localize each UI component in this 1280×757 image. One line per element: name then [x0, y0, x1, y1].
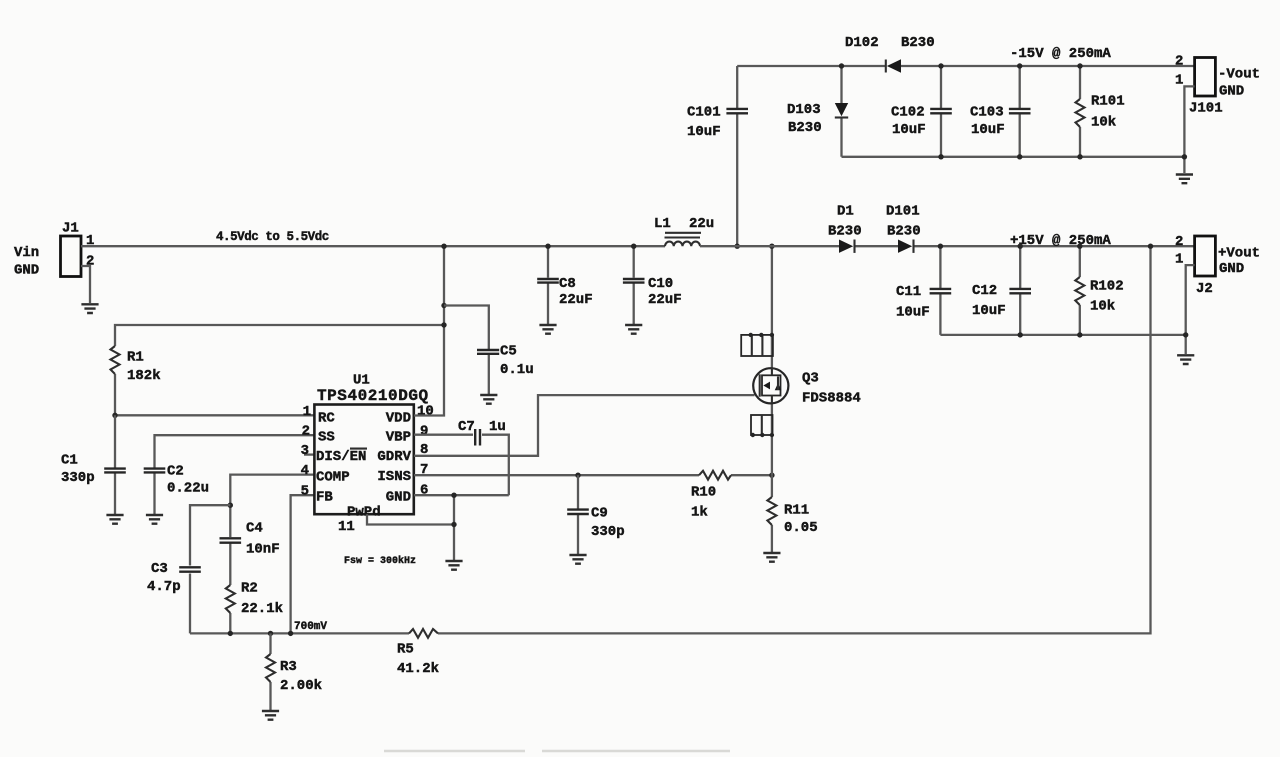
wire C102: [940, 66, 942, 157]
svg-text:1k: 1k: [691, 505, 708, 521]
capacitor C12: [972, 283, 1031, 319]
svg-text:10uF: 10uF: [896, 305, 930, 321]
svg-text:C5: C5: [500, 344, 517, 360]
svg-text:FDS8884: FDS8884: [802, 391, 861, 407]
svg-text:330p: 330p: [591, 524, 625, 540]
transistor Q3 FDS8884: [753, 368, 861, 406]
wire pin3 stub: [304, 453, 314, 455]
svg-text:C9: C9: [591, 506, 608, 522]
svg-text:R3: R3: [280, 659, 297, 675]
wire VDD pin10 riser: [414, 246, 444, 415]
svg-text:1: 1: [1175, 252, 1183, 268]
svg-text:D1: D1: [837, 204, 854, 220]
wire GND pin6: [414, 495, 509, 560]
resistor R102: [1075, 246, 1123, 335]
ground (R3): [262, 711, 279, 720]
svg-text:J101: J101: [1189, 101, 1223, 117]
connector J101: [1175, 54, 1260, 117]
svg-text:C103: C103: [970, 105, 1004, 121]
node J101 gnd junction: [1182, 154, 1187, 159]
svg-text:R11: R11: [784, 503, 809, 519]
node RC junction: [112, 413, 117, 418]
svg-text:Q3: Q3: [802, 371, 819, 387]
node C101 rail junction: [735, 244, 740, 249]
capacitor C11: [896, 284, 951, 321]
svg-text:2.00k: 2.00k: [280, 678, 322, 694]
svg-text:VDD: VDD: [386, 411, 411, 427]
wire C11: [939, 246, 941, 335]
node C12 top: [1018, 244, 1023, 249]
ground (C9): [569, 555, 586, 564]
svg-text:700mV: 700mV: [294, 621, 327, 633]
svg-text:4.5Vdc to 5.5Vdc: 4.5Vdc to 5.5Vdc: [216, 230, 329, 244]
wire C9 branch: [577, 475, 579, 554]
svg-text:10nF: 10nF: [246, 542, 280, 558]
node pin11 junction: [451, 522, 456, 527]
svg-text:B230: B230: [887, 224, 921, 240]
svg-text:2: 2: [302, 424, 310, 440]
wire R1 top branch: [115, 325, 444, 415]
svg-text:C3: C3: [151, 561, 168, 577]
svg-text:C8: C8: [559, 276, 576, 292]
svg-text:R10: R10: [691, 485, 716, 501]
svg-text:C101: C101: [687, 105, 721, 121]
resistor R101: [1076, 66, 1125, 157]
ground (J101): [1176, 175, 1193, 184]
svg-text:FB: FB: [316, 490, 333, 506]
ground (C1): [106, 515, 123, 524]
svg-text:22.1k: 22.1k: [241, 601, 283, 617]
capacitor C10: [623, 276, 682, 308]
node R101 top: [1077, 63, 1082, 68]
svg-text:10uF: 10uF: [971, 122, 1005, 138]
svg-text:5: 5: [301, 484, 309, 500]
connector J2: [1175, 234, 1260, 297]
svg-text:ISNS: ISNS: [377, 469, 411, 485]
node C10 junction: [631, 244, 636, 249]
svg-text:3: 3: [301, 443, 309, 459]
diode D101: [886, 204, 921, 253]
svg-text:GND: GND: [386, 490, 411, 506]
node C102 bottom: [938, 154, 943, 159]
node C8 junction: [545, 244, 550, 249]
svg-text:DIS/EN: DIS/EN: [316, 449, 366, 465]
svg-text:GND: GND: [14, 263, 39, 279]
wire +15V block bottom rail: [940, 334, 1185, 336]
node C103 bottom: [1017, 154, 1022, 159]
node R101 bottom: [1077, 154, 1082, 159]
capacitor C3: [147, 561, 201, 595]
svg-text:0.1u: 0.1u: [500, 362, 534, 378]
node R3 junction: [268, 631, 273, 636]
svg-text:VBP: VBP: [386, 430, 411, 446]
pin 3 label DIS/EN: [316, 449, 367, 465]
svg-text:9: 9: [420, 423, 428, 439]
wire pin11 PwPd: [367, 514, 454, 524]
capacitor C103: [970, 105, 1031, 139]
resistor R2: [226, 581, 283, 618]
svg-text:2: 2: [1175, 54, 1183, 70]
wire J101 pin1 to ground: [1184, 86, 1194, 173]
wire GDRV pin8 to gate: [414, 395, 755, 456]
node GND junction: [451, 493, 456, 498]
svg-text:11: 11: [338, 519, 355, 535]
wire bottom feedback rail: [190, 246, 1151, 633]
wire C3 branch: [190, 505, 230, 633]
resistor R10: [691, 471, 731, 521]
node C4/R2 bottom junction: [228, 631, 233, 636]
svg-text:Fsw = 300kHz: Fsw = 300kHz: [344, 555, 416, 567]
resistor R5: [397, 629, 439, 677]
svg-text:10uF: 10uF: [687, 124, 721, 140]
node C12 bottom: [1018, 332, 1023, 337]
svg-text:4.7p: 4.7p: [147, 579, 181, 595]
svg-text:R102: R102: [1090, 279, 1124, 295]
jumper block above Q3: [741, 333, 774, 356]
svg-text:C102: C102: [891, 105, 925, 121]
wire C10 branch: [633, 246, 635, 324]
svg-text:C10: C10: [648, 276, 673, 292]
resistor R3: [266, 633, 322, 710]
svg-text:R101: R101: [1091, 94, 1125, 110]
capacitor C7: [458, 419, 506, 446]
node Q3 drain rail junction: [769, 244, 774, 249]
svg-text:10uF: 10uF: [892, 122, 926, 138]
wire J2 pin1 to ground: [1186, 265, 1195, 354]
svg-text:0.22u: 0.22u: [167, 481, 209, 497]
svg-text:GND: GND: [1219, 261, 1244, 277]
capacitor C1: [61, 453, 126, 487]
ground (J1 pin2): [81, 304, 98, 313]
svg-text:2: 2: [1175, 234, 1183, 250]
svg-text:L1: L1: [654, 216, 671, 232]
wire SS pin2: [155, 435, 315, 514]
node C102 top: [938, 63, 943, 68]
wire FB pin5: [291, 495, 314, 633]
svg-text:R1: R1: [127, 350, 144, 366]
svg-text:C11: C11: [896, 284, 921, 300]
svg-text:182k: 182k: [127, 368, 161, 384]
svg-text:C12: C12: [972, 283, 997, 299]
wire Q3 drain branch: [771, 246, 773, 475]
connector J1: [61, 221, 95, 277]
capacitor C5: [477, 344, 534, 379]
wire C1 vertical: [114, 415, 116, 514]
ground (C10): [625, 325, 642, 334]
resistor R11: [767, 475, 817, 552]
wire C101 riser: [736, 66, 738, 246]
diode D102: [845, 35, 935, 73]
svg-text:C4: C4: [246, 521, 263, 537]
node C103 top: [1017, 63, 1022, 68]
capacitor C9: [567, 506, 624, 541]
op-amp U1 TPS40210DGQ body: [314, 373, 428, 515]
svg-text:TPS40210DGQ: TPS40210DGQ: [317, 387, 429, 405]
svg-text:D102: D102: [845, 35, 879, 51]
wire J1 pin2 to ground: [81, 266, 90, 303]
ground (C5): [480, 395, 497, 404]
svg-text:C2: C2: [167, 464, 184, 480]
svg-text:GND: GND: [1219, 84, 1244, 100]
svg-text:22u: 22u: [689, 216, 714, 232]
svg-text:R5: R5: [397, 642, 414, 658]
wire C12: [1019, 246, 1021, 335]
svg-text:GDRV: GDRV: [377, 449, 411, 465]
svg-text:C1: C1: [61, 453, 78, 469]
wire +15V rail right of L1: [700, 245, 1195, 247]
svg-text:4: 4: [301, 463, 309, 479]
node COMP junction: [228, 503, 233, 508]
svg-text:B230: B230: [828, 224, 862, 240]
ground (U1 GND): [445, 561, 462, 570]
svg-text:10k: 10k: [1090, 299, 1115, 315]
svg-text:SS: SS: [318, 430, 335, 446]
svg-text:RC: RC: [318, 411, 335, 427]
svg-text:R2: R2: [241, 581, 258, 597]
svg-text:-Vout: -Vout: [1218, 67, 1260, 83]
svg-text:J2: J2: [1196, 281, 1213, 297]
svg-text:1: 1: [1175, 73, 1183, 89]
svg-text:1: 1: [303, 404, 311, 420]
node R102 bottom: [1077, 332, 1082, 337]
ground (J2): [1177, 355, 1194, 364]
svg-text:22uF: 22uF: [648, 292, 682, 308]
node R1 branch junction: [441, 322, 446, 327]
svg-text:+Vout: +Vout: [1218, 246, 1260, 262]
svg-text:330p: 330p: [61, 470, 95, 486]
ground (C2): [146, 515, 163, 524]
svg-text:Vin: Vin: [14, 245, 39, 261]
svg-text:B230: B230: [901, 35, 935, 51]
wire C8 branch: [547, 246, 549, 324]
resistor R1: [111, 346, 161, 384]
jumper block below Q3: [751, 415, 775, 437]
capacitor C4: [220, 521, 280, 558]
node C11 top: [938, 244, 943, 249]
node feedback riser junction: [1148, 244, 1153, 249]
svg-text:1u: 1u: [489, 419, 506, 435]
capacitor C101: [687, 105, 748, 141]
svg-text:J1: J1: [62, 221, 79, 237]
svg-text:D101: D101: [886, 204, 920, 220]
faint page artifact lines: [384, 750, 730, 753]
svg-text:41.2k: 41.2k: [397, 661, 439, 677]
svg-text:10uF: 10uF: [972, 303, 1006, 319]
ground (C8): [539, 325, 556, 334]
pin 11 label PwPd: [338, 505, 381, 536]
node D103 top junction: [839, 63, 844, 68]
node C9 junction: [575, 473, 580, 478]
svg-text:0.05: 0.05: [784, 520, 818, 536]
capacitor C102: [891, 105, 952, 139]
svg-text:10: 10: [417, 403, 434, 419]
svg-text:COMP: COMP: [316, 470, 350, 486]
svg-text:C7: C7: [458, 419, 475, 435]
wire COMP pin4: [230, 475, 314, 634]
node R10/R11/Q3 junction: [769, 473, 774, 478]
wire -15V bottom rail: [842, 156, 1185, 158]
svg-text:-15V @ 250mA: -15V @ 250mA: [1010, 46, 1111, 62]
node FB junction: [288, 631, 293, 636]
diode D1: [828, 204, 862, 253]
svg-text:B230: B230: [788, 120, 822, 136]
wire C103: [1019, 66, 1021, 157]
node C5 branch junction: [441, 303, 446, 308]
wire C5 branch: [444, 306, 489, 395]
svg-text:+15V @ 250mA: +15V @ 250mA: [1010, 233, 1111, 249]
node J2 gnd junction: [1183, 332, 1188, 337]
node R102 top: [1077, 244, 1082, 249]
wire RC pin1: [115, 414, 314, 416]
svg-text:22uF: 22uF: [559, 292, 593, 308]
diode D103: [787, 66, 848, 157]
svg-text:10k: 10k: [1091, 115, 1116, 131]
wire VBP pin9 with C7: [414, 435, 509, 496]
inductor L1: [654, 216, 714, 246]
wire -15V top rail: [737, 65, 1194, 67]
capacitor C8: [537, 276, 592, 308]
wire ISNS pin7: [414, 474, 772, 476]
wire main input rail: [81, 245, 665, 247]
node VDD rail junction: [441, 244, 446, 249]
ground (R11): [763, 553, 780, 562]
capacitor C2: [144, 464, 209, 497]
svg-text:D103: D103: [787, 102, 821, 118]
